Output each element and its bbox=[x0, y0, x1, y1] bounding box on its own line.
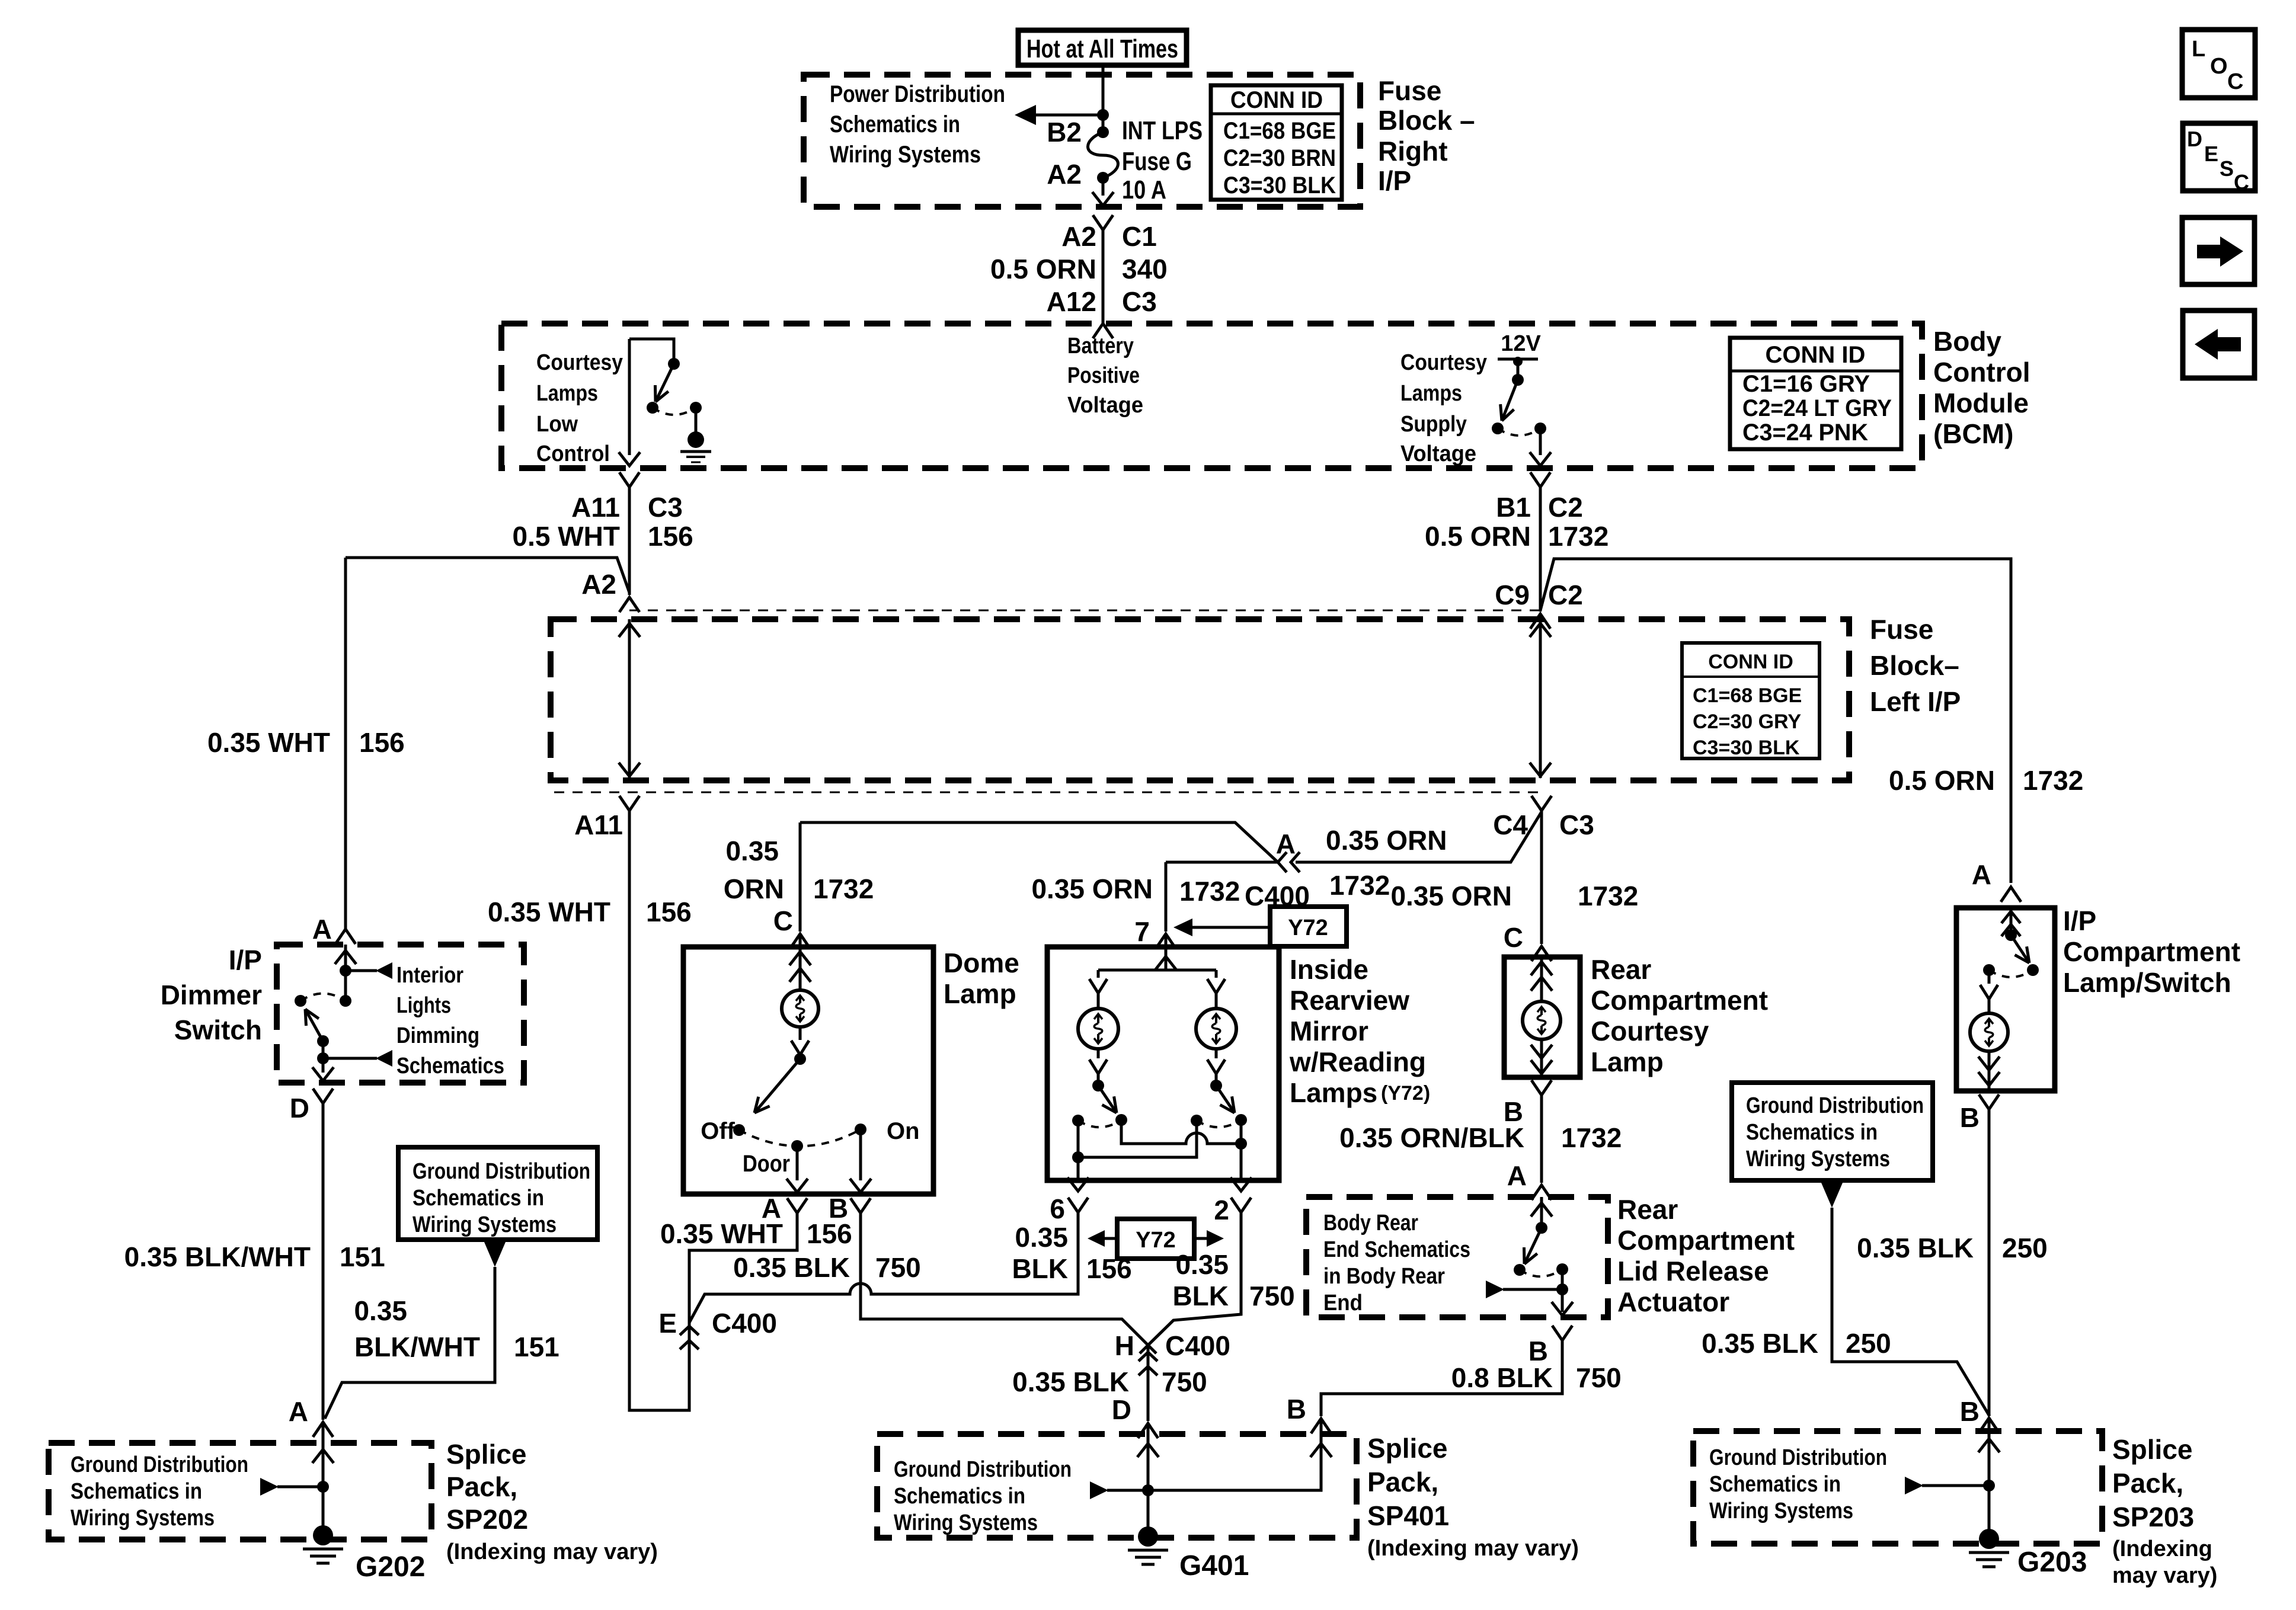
node: output contact bbox=[1534, 422, 1546, 434]
wire: low control output bbox=[628, 339, 631, 455]
svg-text:B: B bbox=[1960, 1102, 1980, 1133]
wire: pin 6 output bbox=[1077, 1121, 1080, 1179]
wire: 0.35 ORN/BLK 1732 to lid release actuator bbox=[1540, 1095, 1543, 1183]
svg-text:C3=30 BLK: C3=30 BLK bbox=[1693, 737, 1800, 759]
svg-text:Wiring Systems: Wiring Systems bbox=[1709, 1499, 1853, 1523]
svg-text:S: S bbox=[2220, 156, 2234, 181]
arrow: wire exits fuse block bbox=[1092, 192, 1114, 206]
box: CONN ID for fuse block left bbox=[1682, 643, 1819, 758]
svg-text:(Indexing may vary): (Indexing may vary) bbox=[446, 1539, 658, 1564]
svg-text:Fuse: Fuse bbox=[1378, 75, 1441, 106]
svg-text:A: A bbox=[1507, 1160, 1527, 1191]
wire: 0.35 ORN 1732 to rear compartment courtesy lamp bbox=[1540, 811, 1543, 944]
wire: 0.35 WHT 156 to I/P dimmer switch bbox=[344, 558, 347, 929]
svg-text:Schematics in: Schematics in bbox=[894, 1484, 1025, 1509]
svg-text:0.5 ORN: 0.5 ORN bbox=[990, 254, 1096, 284]
switch arm with arrow bbox=[305, 1009, 323, 1041]
svg-text:1732: 1732 bbox=[1179, 876, 1240, 907]
lamp: rear compartment bulb bbox=[1523, 1001, 1560, 1039]
connector B: dome lamp ground output bbox=[850, 1198, 871, 1213]
svg-text:Voltage: Voltage bbox=[1400, 441, 1476, 466]
svg-text:A2: A2 bbox=[581, 569, 616, 600]
connector A: I/P compartment lamp bbox=[2001, 887, 2021, 902]
svg-text:L: L bbox=[2192, 37, 2205, 62]
svg-text:340: 340 bbox=[1122, 254, 1168, 284]
connector pin 2 bbox=[1231, 1198, 1251, 1212]
svg-text:End Schematics: End Schematics bbox=[1323, 1237, 1470, 1262]
svg-text:G401: G401 bbox=[1179, 1550, 1249, 1582]
svg-text:B1: B1 bbox=[1496, 492, 1531, 523]
node On bbox=[855, 1124, 866, 1135]
ground G202 bbox=[313, 1525, 333, 1545]
svg-text:Compartment: Compartment bbox=[1591, 985, 1768, 1016]
node: splice junction bbox=[317, 1481, 329, 1493]
wire: output exits actuator bbox=[1561, 1289, 1564, 1312]
wire: branch of circuit 1732 to I/P compartment lamp bbox=[1540, 559, 2011, 883]
wire: feed enters lamp/switch bbox=[2010, 908, 2013, 935]
svg-text:Dimmer: Dimmer bbox=[161, 980, 262, 1010]
wire: 0.35 BLK/WHT 151 to splice pack SP202 bbox=[322, 1103, 325, 1420]
wire: 0.35 BLK 750 from H to splice pack SP401 bbox=[1147, 1345, 1150, 1421]
svg-text:0.8 BLK: 0.8 BLK bbox=[1451, 1362, 1553, 1393]
svg-text:On: On bbox=[887, 1118, 920, 1144]
svg-text:C1: C1 bbox=[1122, 221, 1157, 252]
svg-text:250: 250 bbox=[1846, 1328, 1891, 1359]
svg-text:1732: 1732 bbox=[1548, 521, 1609, 552]
svg-text:0.35 ORN: 0.35 ORN bbox=[1326, 825, 1447, 856]
dashed arc: switch travel bbox=[1498, 428, 1540, 436]
svg-text:Schematics in: Schematics in bbox=[1709, 1472, 1841, 1497]
wire: 0.35 WHT 156 from fuse A11 down and to C400 pin E bbox=[629, 811, 797, 1410]
svg-text:A: A bbox=[312, 914, 332, 945]
wire: 0.35 BLK 250 to splice pack SP203 bbox=[1988, 1109, 1991, 1415]
connector boundary line (thin dashed) bbox=[554, 792, 1542, 793]
svg-text:Interior: Interior bbox=[396, 963, 463, 988]
wire: 0.5 ORN 1732 from BCM B1 bbox=[1539, 487, 1542, 612]
svg-text:C9: C9 bbox=[1495, 580, 1530, 610]
arrow: exits BCM bbox=[619, 452, 640, 466]
svg-text:A: A bbox=[289, 1396, 308, 1427]
arrow: from ground distribution schematics bbox=[277, 1486, 323, 1489]
svg-text:0.35 BLK: 0.35 BLK bbox=[733, 1252, 850, 1283]
wire: 0.35 ORN branch from C4 to connector C400 pin A bbox=[1296, 812, 1542, 862]
wire: right inner contact down and across to pin6 bus bbox=[1078, 1121, 1197, 1157]
svg-text:C: C bbox=[2227, 69, 2243, 94]
connector A: splice pack SP202 bbox=[313, 1422, 333, 1437]
svg-text:Y72: Y72 bbox=[1288, 916, 1328, 940]
node: junction on feed wire bbox=[1097, 109, 1109, 121]
wire: 0.35 ORN 1732 mirror drop bbox=[1165, 862, 1168, 932]
arrow: output exits dimmer bbox=[312, 1067, 334, 1081]
dashed arc: switch travel bbox=[1520, 1269, 1562, 1276]
callout box: Y72 option reference bbox=[1270, 907, 1347, 946]
connector D: splice pack SP401 bbox=[1138, 1423, 1158, 1438]
svg-text:156: 156 bbox=[648, 521, 693, 552]
arrow: from ground distribution schematics bbox=[1107, 1489, 1148, 1492]
svg-text:Low: Low bbox=[536, 412, 578, 437]
connector D: dimmer output bbox=[313, 1089, 333, 1103]
svg-text:0.35 WHT: 0.35 WHT bbox=[660, 1218, 783, 1249]
ground: BCM internal bbox=[687, 431, 704, 448]
svg-text:CONN ID: CONN ID bbox=[1708, 651, 1793, 673]
wire: pin 2 output bbox=[1240, 1120, 1243, 1179]
connector A2/C1: fuse block to harness bbox=[1093, 215, 1113, 230]
svg-text:Schematics in: Schematics in bbox=[1746, 1120, 1878, 1145]
box: CONN ID for BCM bbox=[1730, 338, 1901, 449]
lamp: I/P compartment bulb bbox=[1970, 1013, 2008, 1051]
svg-text:0.5 ORN: 0.5 ORN bbox=[1425, 521, 1531, 552]
connector B: lamp output bbox=[1979, 1094, 1999, 1109]
svg-text:D: D bbox=[2187, 127, 2202, 151]
wire: 0.5 WHT 156 from BCM A11 bbox=[628, 487, 631, 595]
svg-text:Wiring Systems: Wiring Systems bbox=[412, 1212, 557, 1237]
svg-text:0.5 ORN: 0.5 ORN bbox=[1889, 765, 1995, 796]
component box (dashed): Body Control Module BCM bbox=[501, 324, 1922, 468]
node Door bbox=[791, 1140, 803, 1152]
svg-text:(Indexing may vary): (Indexing may vary) bbox=[1367, 1536, 1579, 1561]
svg-text:C: C bbox=[773, 905, 793, 936]
svg-text:Supply: Supply bbox=[1400, 412, 1467, 437]
svg-text:Off: Off bbox=[701, 1118, 735, 1144]
wire: enters dimmer switch bbox=[344, 945, 347, 1001]
svg-text:Pack,: Pack, bbox=[446, 1471, 517, 1502]
svg-text:Pack,: Pack, bbox=[2112, 1468, 2183, 1499]
svg-text:BLK/WHT: BLK/WHT bbox=[354, 1331, 480, 1362]
svg-text:INT LPS: INT LPS bbox=[1122, 116, 1203, 145]
svg-text:I/P: I/P bbox=[229, 945, 262, 975]
svg-text:A11: A11 bbox=[571, 492, 620, 523]
wire: 0.35 BLK 250 ground lead to SP203 bbox=[1832, 1208, 1990, 1416]
svg-text:Dimming: Dimming bbox=[396, 1023, 479, 1048]
node: output contact with reference arrow bbox=[317, 1052, 329, 1064]
node: splice junction bbox=[1142, 1484, 1154, 1496]
svg-text:C1=68 BGE: C1=68 BGE bbox=[1693, 684, 1802, 707]
svg-text:Inside: Inside bbox=[1290, 954, 1368, 985]
svg-text:0.35: 0.35 bbox=[725, 836, 779, 866]
wire: branch to power distribution schematics with arrow bbox=[1034, 114, 1103, 117]
node: switch contact bbox=[1492, 422, 1504, 434]
wire: left switch contact to pin2 bus with hop bbox=[1121, 1120, 1241, 1144]
svg-text:C4: C4 bbox=[1493, 809, 1528, 840]
wire: door contact output bbox=[796, 1146, 799, 1180]
svg-text:151: 151 bbox=[340, 1241, 385, 1272]
svg-text:C400: C400 bbox=[712, 1308, 777, 1339]
svg-text:2: 2 bbox=[1214, 1195, 1229, 1225]
svg-text:Wiring Systems: Wiring Systems bbox=[1746, 1147, 1890, 1172]
svg-text:0.35: 0.35 bbox=[1175, 1249, 1229, 1280]
svg-text:750: 750 bbox=[1162, 1366, 1207, 1397]
svg-text:G202: G202 bbox=[356, 1551, 425, 1583]
dashed arc: switch travel bbox=[1989, 970, 2033, 977]
connector B: actuator ground output bbox=[1552, 1326, 1572, 1340]
svg-text:Lights: Lights bbox=[396, 993, 451, 1018]
svg-text:Actuator: Actuator bbox=[1617, 1286, 1729, 1317]
svg-text:A: A bbox=[1972, 859, 1991, 890]
svg-text:(Indexing: (Indexing bbox=[2112, 1537, 2212, 1561]
wire: 0.8 BLK 750 from lid actuator to SP401 bbox=[1321, 1340, 1562, 1416]
wire: 0.5 ORN 340 battery feed to BCM bbox=[1102, 230, 1105, 324]
dashed arc: left switch travel bbox=[1078, 1120, 1121, 1127]
svg-text:0.35 ORN: 0.35 ORN bbox=[1390, 881, 1512, 911]
connector C9/C2: into fuse block left bbox=[1530, 614, 1550, 629]
connector A11: fuse block left output circuit 156 bbox=[619, 796, 639, 811]
svg-text:1732: 1732 bbox=[813, 873, 874, 904]
wire: 0.35 BLK/WHT 151 ground lead to SP202 bbox=[325, 1267, 495, 1419]
svg-text:C2: C2 bbox=[1548, 580, 1583, 610]
svg-text:Rearview: Rearview bbox=[1290, 985, 1409, 1016]
svg-text:B: B bbox=[1960, 1396, 1980, 1427]
svg-text:Y72: Y72 bbox=[1136, 1228, 1176, 1253]
connector B: lamp output bbox=[1531, 1080, 1552, 1095]
svg-text:G203: G203 bbox=[2017, 1547, 2087, 1578]
svg-text:O: O bbox=[2210, 54, 2228, 79]
svg-text:Lamps: Lamps bbox=[1290, 1077, 1377, 1108]
svg-text:Block–: Block– bbox=[1870, 650, 1959, 681]
component box (dashed): Fuse Block - Left I/P bbox=[551, 619, 1849, 780]
wire: contact to output junction bbox=[1561, 1269, 1564, 1289]
component box (dashed): I/P Dimmer Switch bbox=[277, 945, 524, 1083]
svg-text:Dome: Dome bbox=[944, 948, 1019, 978]
svg-text:12V: 12V bbox=[1501, 331, 1541, 356]
svg-text:750: 750 bbox=[1576, 1362, 1622, 1393]
wire: branch to body rear end schematics bbox=[1503, 1288, 1562, 1291]
svg-text:I/P: I/P bbox=[2063, 905, 2096, 936]
svg-text:Wiring Systems: Wiring Systems bbox=[71, 1506, 215, 1531]
arrows: feed enters lamp bbox=[1540, 957, 1543, 1001]
connector B: splice pack SP401 bbox=[1311, 1419, 1331, 1433]
connector mark below bulb bbox=[799, 1027, 802, 1040]
svg-text:156: 156 bbox=[646, 897, 692, 927]
node Off bbox=[733, 1124, 745, 1136]
svg-text:Schematics in: Schematics in bbox=[412, 1186, 544, 1211]
svg-text:Door: Door bbox=[743, 1151, 790, 1177]
wire: on contact output bbox=[859, 1129, 862, 1180]
svg-text:I/P: I/P bbox=[1378, 165, 1411, 196]
svg-text:A11: A11 bbox=[574, 809, 623, 840]
svg-text:0.35 ORN/BLK: 0.35 ORN/BLK bbox=[1339, 1122, 1524, 1153]
svg-text:Lamps: Lamps bbox=[536, 381, 598, 406]
icon box: LOC bbox=[2182, 30, 2255, 98]
svg-text:Body: Body bbox=[1933, 326, 2001, 357]
svg-text:E: E bbox=[2204, 142, 2218, 166]
svg-text:Positive: Positive bbox=[1067, 363, 1140, 388]
svg-text:Ground Distribution: Ground Distribution bbox=[1709, 1445, 1887, 1470]
svg-text:1732: 1732 bbox=[2023, 765, 2083, 796]
svg-text:151: 151 bbox=[514, 1331, 559, 1362]
svg-text:C: C bbox=[2234, 170, 2249, 194]
svg-text:Battery: Battery bbox=[1067, 334, 1134, 359]
svg-text:Ground Distribution: Ground Distribution bbox=[71, 1452, 248, 1477]
connector A2: into fuse block left bbox=[619, 597, 639, 612]
svg-text:C2=30 BRN: C2=30 BRN bbox=[1223, 145, 1336, 171]
connector B: splice pack SP203 bbox=[1979, 1418, 1999, 1433]
wire: branch of circuit 156 to I/P dimmer switch bbox=[346, 558, 629, 593]
svg-text:C1=68 BGE: C1=68 BGE bbox=[1223, 118, 1336, 144]
svg-text:Lamp: Lamp bbox=[1591, 1046, 1664, 1077]
icon box: previous page arrow bbox=[2183, 311, 2255, 378]
svg-text:156: 156 bbox=[359, 727, 405, 758]
svg-text:750: 750 bbox=[1249, 1281, 1295, 1311]
svg-text:Module: Module bbox=[1933, 388, 2029, 418]
svg-text:Courtesy: Courtesy bbox=[1591, 1016, 1709, 1046]
svg-text:Lamp: Lamp bbox=[944, 978, 1016, 1009]
svg-text:E: E bbox=[658, 1308, 677, 1339]
svg-text:0.35 WHT: 0.35 WHT bbox=[207, 727, 330, 758]
svg-text:Ground Distribution: Ground Distribution bbox=[894, 1457, 1072, 1482]
svg-text:A: A bbox=[1276, 828, 1296, 859]
wire: 0.35 BLK 156 mirror pin6 joins at C400 E bbox=[689, 1212, 1078, 1323]
svg-text:0.35 ORN: 0.35 ORN bbox=[1031, 873, 1153, 904]
svg-text:Schematics in: Schematics in bbox=[830, 111, 960, 137]
svg-text:Rear: Rear bbox=[1617, 1194, 1678, 1225]
wire: 0.35 BLK 750 mirror pin2 to C400 pin H bbox=[1148, 1212, 1241, 1345]
svg-text:Body Rear: Body Rear bbox=[1323, 1211, 1418, 1235]
svg-text:C: C bbox=[1504, 922, 1523, 953]
svg-text:Lid Release: Lid Release bbox=[1617, 1256, 1769, 1286]
box: Ground Distribution Schematics reference (right) bbox=[1732, 1083, 1933, 1180]
lamp: right reading lamp bbox=[1196, 1009, 1236, 1049]
svg-text:Switch: Switch bbox=[174, 1014, 262, 1045]
svg-text:C3: C3 bbox=[648, 492, 683, 523]
svg-text:may vary): may vary) bbox=[2112, 1563, 2217, 1588]
switch: BCM courtesy lamps supply driver bbox=[1512, 374, 1524, 386]
dashed arc: dimmer travel bbox=[300, 994, 346, 1001]
svg-text:Splice: Splice bbox=[446, 1439, 527, 1470]
svg-text:Courtesy: Courtesy bbox=[1400, 350, 1487, 375]
component box: Dome Lamp bbox=[683, 947, 933, 1194]
connector C: dome lamp bbox=[790, 934, 810, 949]
node A2: fuse terminal bbox=[1097, 172, 1109, 184]
svg-text:Splice: Splice bbox=[2112, 1434, 2193, 1465]
svg-text:Courtesy: Courtesy bbox=[536, 350, 623, 375]
svg-text:1732: 1732 bbox=[1561, 1122, 1622, 1153]
svg-text:(Y72): (Y72) bbox=[1381, 1082, 1430, 1105]
component box (dashed): Splice Pack SP401 bbox=[877, 1434, 1357, 1538]
svg-text:H: H bbox=[1115, 1330, 1134, 1361]
connector C4/C3: fuse block left output circuit 1732 bbox=[1531, 796, 1552, 811]
svg-text:0.35 WHT: 0.35 WHT bbox=[488, 897, 610, 927]
node: right inner contact bbox=[1191, 1115, 1203, 1126]
node B2: fuse terminal bbox=[1097, 126, 1109, 138]
component box (dashed): Splice Pack SP202 bbox=[49, 1443, 431, 1539]
wire: ORN up-over to dome lamp feed bbox=[800, 822, 1278, 862]
svg-text:CONN ID: CONN ID bbox=[1230, 87, 1323, 113]
svg-text:BLK: BLK bbox=[1012, 1253, 1068, 1284]
svg-text:1732: 1732 bbox=[1329, 870, 1390, 901]
svg-text:Splice: Splice bbox=[1367, 1433, 1448, 1464]
svg-text:D: D bbox=[1112, 1394, 1131, 1425]
svg-text:Control: Control bbox=[536, 441, 610, 466]
wire: supply output bbox=[1539, 428, 1542, 455]
node: moving contact position bbox=[340, 995, 351, 1007]
switch arm with arrow bbox=[655, 364, 674, 402]
svg-text:C2: C2 bbox=[1548, 492, 1583, 523]
connector C400 pin E (in-line) bbox=[680, 1326, 699, 1335]
connector A: dome lamp door output bbox=[787, 1198, 807, 1213]
svg-text:SP202: SP202 bbox=[446, 1504, 528, 1535]
svg-text:SP203: SP203 bbox=[2112, 1502, 2194, 1532]
wire: battery feed from Hot at All Times into fuse block bbox=[1102, 65, 1105, 132]
right lamp output connector mark bbox=[1215, 1049, 1218, 1058]
svg-text:SP401: SP401 bbox=[1367, 1500, 1449, 1531]
svg-text:Wiring Systems: Wiring Systems bbox=[894, 1510, 1038, 1535]
svg-text:Block –: Block – bbox=[1378, 105, 1475, 136]
svg-text:Right: Right bbox=[1378, 136, 1448, 167]
node: left outer contact bbox=[1072, 1115, 1084, 1126]
svg-text:C3=30 BLK: C3=30 BLK bbox=[1223, 172, 1336, 199]
lamp: dome lamp bulb bbox=[782, 990, 818, 1027]
component box: Rear Compartment Courtesy Lamp bbox=[1504, 957, 1580, 1077]
svg-text:w/Reading: w/Reading bbox=[1289, 1046, 1426, 1077]
wire to internal ground bbox=[695, 408, 698, 433]
wire: ORN from C400-A to dome lamp and mirror bbox=[1166, 861, 1278, 864]
component box (dashed): Rear Compartment Lid Release Actuator bbox=[1306, 1197, 1608, 1317]
connector A11/C3: BCM low control output bbox=[619, 472, 639, 487]
connector C: rear compartment courtesy lamp bbox=[1531, 946, 1552, 961]
arrows: feed enters dome lamp bbox=[799, 947, 802, 990]
node: selected contact bbox=[295, 995, 306, 1007]
ground G401 bbox=[1138, 1526, 1158, 1547]
wire: circuit 156 through fuse block bbox=[628, 619, 631, 778]
dashed arc: switch travel bbox=[653, 408, 696, 415]
svg-text:Rear: Rear bbox=[1591, 954, 1651, 985]
svg-text:Lamps: Lamps bbox=[1400, 381, 1462, 406]
switch: lid release bbox=[1536, 1222, 1547, 1234]
svg-text:BLK: BLK bbox=[1172, 1281, 1229, 1311]
svg-text:C2=30 GRY: C2=30 GRY bbox=[1693, 710, 1801, 733]
svg-text:Power Distribution: Power Distribution bbox=[830, 81, 1005, 107]
svg-text:156: 156 bbox=[807, 1218, 852, 1249]
svg-text:10 A: 10 A bbox=[1122, 175, 1166, 204]
component box (dashed): Fuse Block - Right I/P bbox=[804, 75, 1360, 207]
callout box: Y72 option reference (mirror grounds) bbox=[1117, 1219, 1194, 1259]
arrows: lamp output exits box bbox=[1988, 1051, 1991, 1090]
svg-text:Ground Distribution: Ground Distribution bbox=[412, 1159, 590, 1184]
svg-text:C3=24 PNK: C3=24 PNK bbox=[1742, 420, 1868, 446]
svg-text:End: End bbox=[1323, 1291, 1363, 1315]
box: CONN ID for fuse block right bbox=[1211, 85, 1342, 200]
svg-text:Fuse G: Fuse G bbox=[1122, 147, 1192, 176]
svg-text:0.35: 0.35 bbox=[354, 1295, 407, 1326]
switch: left reading lamp bbox=[1092, 1080, 1104, 1092]
dashed arc: switch positions bbox=[739, 1129, 861, 1146]
svg-text:250: 250 bbox=[2002, 1233, 2048, 1263]
svg-text:0.35 BLK: 0.35 BLK bbox=[1012, 1366, 1129, 1397]
arrows: lamp output exits box bbox=[1540, 1039, 1543, 1076]
node: feed contact with reference arrow bbox=[340, 965, 351, 977]
svg-text:Fuse: Fuse bbox=[1870, 614, 1933, 645]
wire: contact to lamp bbox=[1988, 970, 1991, 984]
connector B1/C2: BCM supply output bbox=[1530, 472, 1550, 487]
svg-text:Hot at All Times: Hot at All Times bbox=[1027, 34, 1178, 63]
svg-text:Compartment: Compartment bbox=[2063, 936, 2240, 967]
svg-text:Wiring Systems: Wiring Systems bbox=[830, 142, 981, 168]
svg-text:in Body Rear: in Body Rear bbox=[1323, 1264, 1445, 1289]
node: switch contact (output) bbox=[647, 402, 658, 414]
connector C400 pin H (in-line) bbox=[1148, 1345, 1156, 1353]
connector 7: inside rearview mirror bbox=[1156, 934, 1176, 949]
switch: I/P compartment lamp bbox=[2005, 929, 2017, 941]
svg-text:7: 7 bbox=[1134, 916, 1150, 947]
svg-text:Lamp/Switch: Lamp/Switch bbox=[2063, 967, 2231, 998]
arrow: from ground distribution bbox=[484, 1242, 506, 1267]
svg-text:C400: C400 bbox=[1165, 1330, 1230, 1361]
svg-text:Mirror: Mirror bbox=[1290, 1016, 1368, 1046]
svg-text:C1=16 GRY: C1=16 GRY bbox=[1742, 371, 1870, 397]
connector C400 pin A (in-line) bbox=[1278, 852, 1287, 872]
svg-text:Schematics: Schematics bbox=[396, 1054, 504, 1078]
svg-text:CONN ID: CONN ID bbox=[1766, 342, 1866, 368]
